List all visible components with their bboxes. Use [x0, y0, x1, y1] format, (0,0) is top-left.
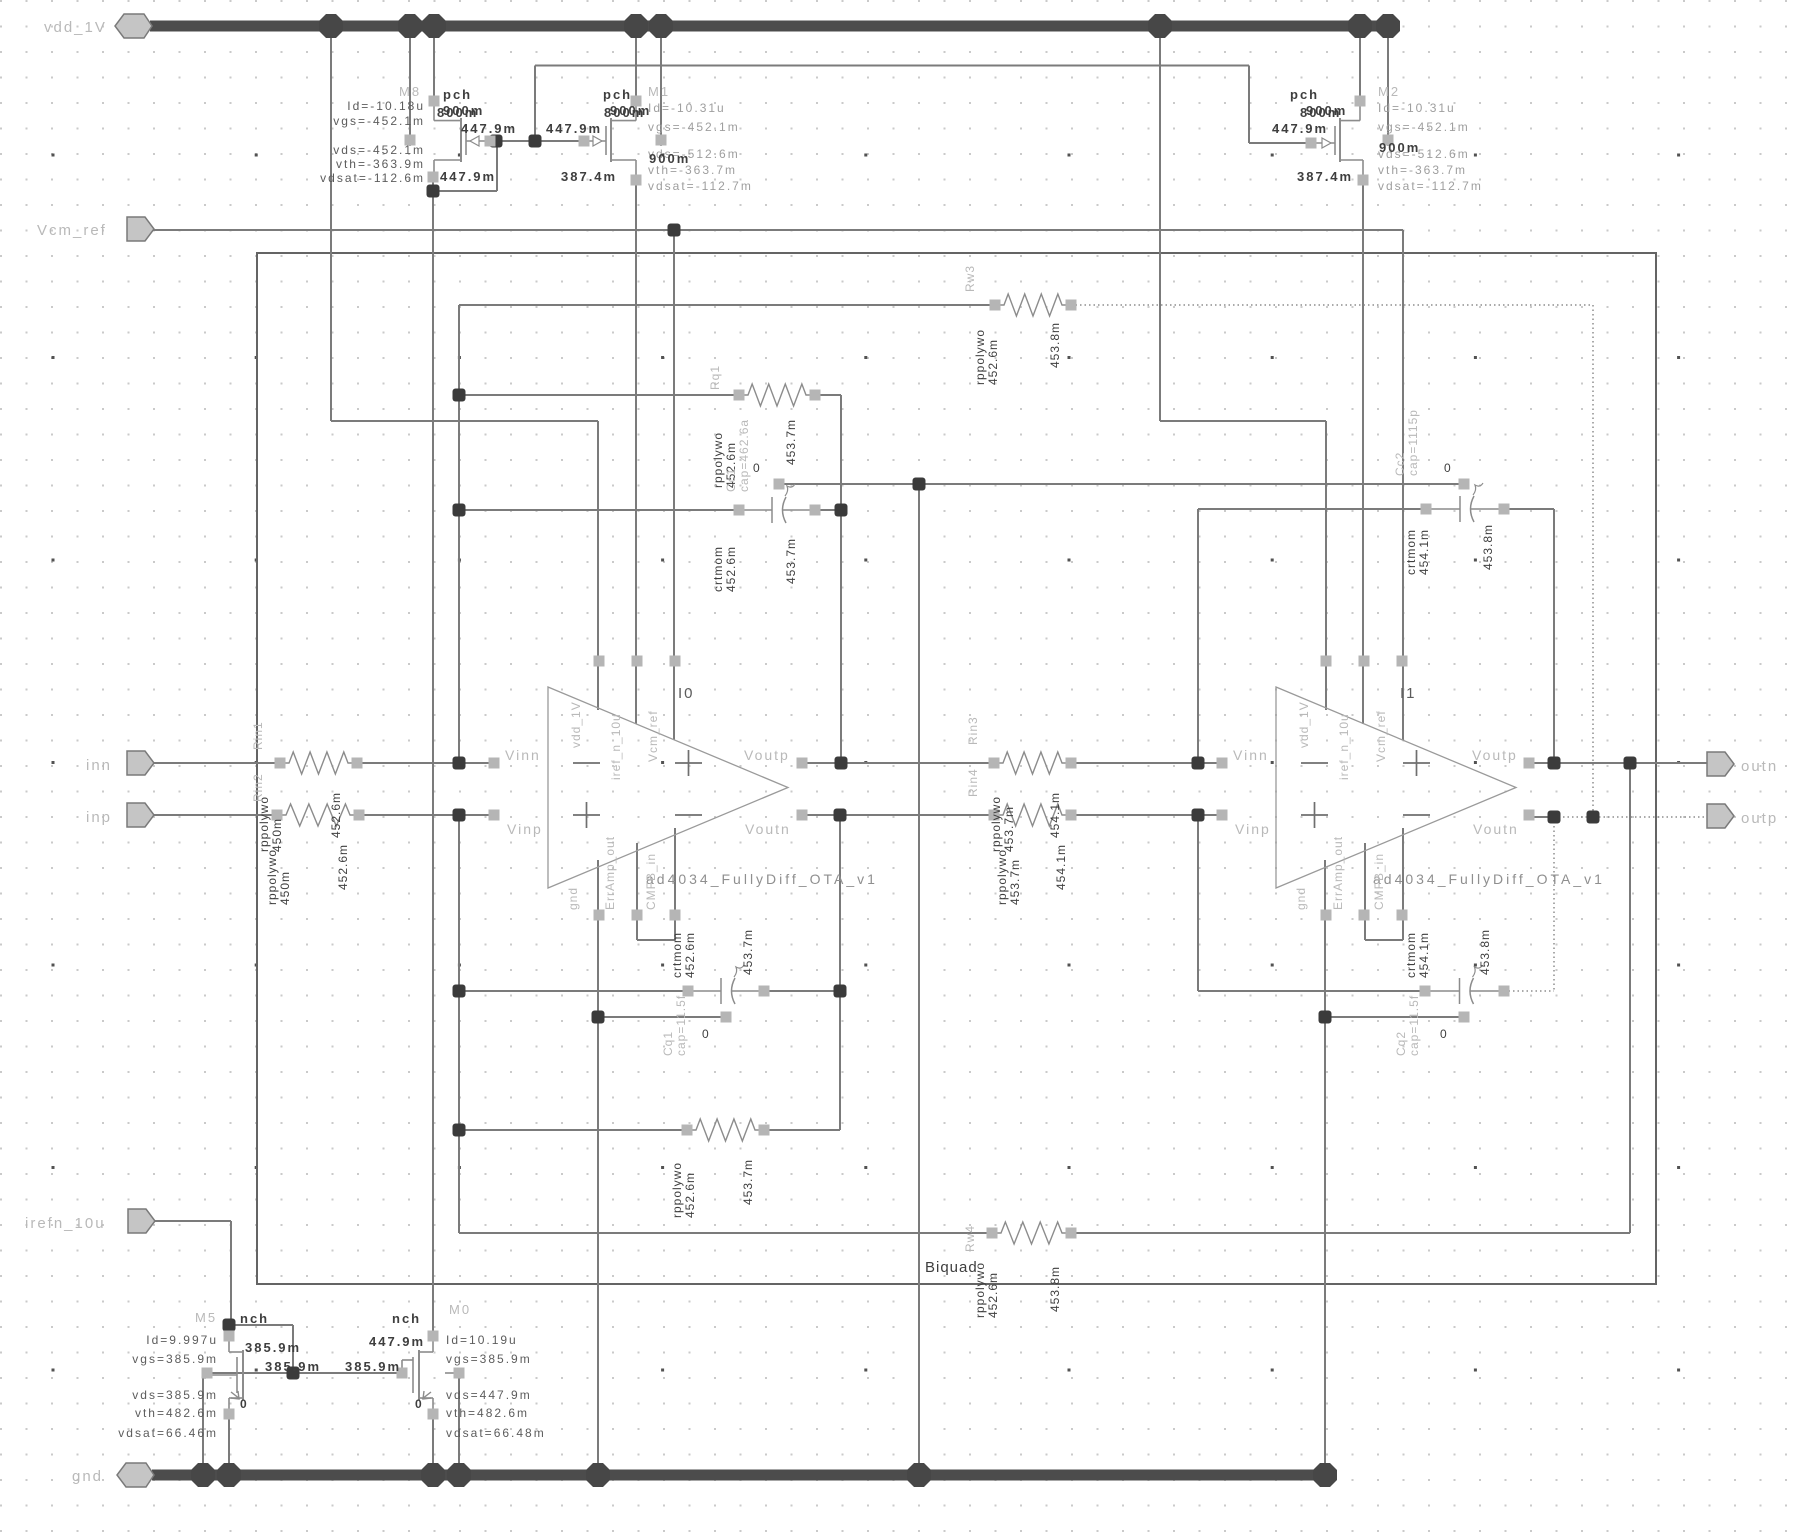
svg-text:450m: 450m — [270, 818, 284, 852]
svg-text:453.8m: 453.8m — [1048, 322, 1062, 368]
svg-text:387.4m: 387.4m — [1297, 169, 1353, 184]
svg-text:vth=-363.9m: vth=-363.9m — [336, 157, 425, 171]
svg-text:rppolywo: rppolywo — [973, 1262, 987, 1318]
wire M2 source to rail — [1359, 31, 1361, 101]
capacitor Cc2 — [1426, 508, 1460, 510]
svg-text:0: 0 — [240, 1397, 249, 1411]
wire M8 drain down to M0 drain — [432, 177, 434, 1336]
transistor M1 pch — [635, 101, 637, 121]
svg-text:crtmom: crtmom — [1404, 529, 1418, 575]
wire inp input — [154, 814, 277, 816]
svg-text:Voutn: Voutn — [745, 821, 791, 837]
wire Cc2 row — [1198, 508, 1426, 510]
svg-text:vdsat=66.48m: vdsat=66.48m — [446, 1426, 546, 1440]
svg-text:450m: 450m — [278, 871, 292, 905]
svg-text:pch: pch — [443, 87, 472, 102]
resistor Rin1 (inn) — [280, 752, 357, 774]
wire Rw4 row — [459, 1232, 992, 1234]
wire Cc2 to Voutp2 — [1553, 509, 1555, 763]
svg-text:0: 0 — [1440, 1027, 1449, 1041]
svg-text:452.6m: 452.6m — [683, 1172, 697, 1218]
transistor M5 nch — [228, 1336, 230, 1352]
svg-text:447.9m: 447.9m — [369, 1334, 425, 1349]
svg-text:ad4034_FullyDiff_OTA_v1: ad4034_FullyDiff_OTA_v1 — [646, 871, 878, 887]
svg-text:nch: nch — [240, 1311, 269, 1326]
resistor Rin4 — [994, 804, 1071, 826]
svg-text:452.6m: 452.6m — [336, 844, 350, 890]
wire M8 bulk to rail — [409, 31, 411, 135]
wire dashed feedback vertical — [1592, 305, 1594, 817]
svg-text:454.1m: 454.1m — [1048, 792, 1062, 838]
svg-text:452.6m: 452.6m — [683, 932, 697, 978]
wire M2 drain to OTA2 iref pin — [1362, 180, 1364, 724]
svg-text:crtmom: crtmom — [711, 546, 725, 592]
svg-text:Rin3: Rin3 — [966, 716, 980, 745]
port irefn_10u — [128, 1209, 155, 1233]
wire OTA1 Voutn to Rin2b — [802, 814, 994, 816]
svg-text:vgs=-452.1m: vgs=-452.1m — [1378, 120, 1470, 134]
svg-text:453.7m: 453.7m — [784, 419, 798, 465]
wire nch gate bus — [207, 1372, 402, 1374]
svg-text:453.7m: 453.7m — [741, 929, 755, 975]
svg-text:ad4034_FullyDiff_OTA_v1: ad4034_FullyDiff_OTA_v1 — [1373, 871, 1605, 887]
wire OTA1 gnd pin to rail — [597, 860, 599, 1470]
svg-text:rppolywo: rppolywo — [257, 796, 271, 852]
op-amp U-I1 ad4034_FullyDiff_OTA_v1 — [1276, 687, 1516, 888]
wire M1 bulk to rail — [660, 31, 662, 135]
wire M0 bulk to rail — [458, 1373, 460, 1470]
transistor M2 pch — [1359, 101, 1361, 121]
svg-text:Id=-10.31u: Id=-10.31u — [1378, 101, 1456, 115]
svg-text:rppolywo: rppolywo — [989, 796, 1003, 852]
wire OTA1 Voutp to Rin2a — [802, 762, 994, 764]
wire Rq1b row — [459, 1129, 687, 1131]
svg-text:vdsat=-112.7m: vdsat=-112.7m — [648, 179, 753, 193]
port Vcm_ref — [127, 217, 154, 241]
svg-text:vdd_1V: vdd_1V — [1297, 701, 1311, 748]
svg-text:CMFB_in: CMFB_in — [644, 853, 658, 910]
capacitor Cq1 — [688, 990, 721, 992]
wire M8 source to rail — [433, 31, 435, 101]
wire Vinp2 to Cq2 — [1197, 815, 1199, 991]
svg-text:Id=9.997u: Id=9.997u — [146, 1333, 218, 1347]
wire irefn input — [154, 1220, 231, 1222]
wire OTA2 gnd pin to rail — [1324, 860, 1326, 1470]
wire M1 drain to OTA1 iref pin — [635, 180, 637, 724]
svg-text:inp: inp — [86, 809, 112, 826]
wire Rw3 feedback row — [459, 304, 995, 306]
wire Cq2 dotted to Voutn2 — [1504, 990, 1554, 992]
svg-text:M5: M5 — [195, 1310, 217, 1325]
svg-text:pch: pch — [603, 87, 632, 102]
svg-text:vgs=-452.1m: vgs=-452.1m — [648, 120, 740, 134]
wire OTA2 Voutp to outn port — [1529, 762, 1707, 764]
svg-text:453.8m: 453.8m — [1481, 524, 1495, 570]
wire Rw3 dashed to right — [1071, 304, 1593, 306]
svg-text:453.7m: 453.7m — [1008, 859, 1022, 905]
port outp — [1707, 804, 1734, 828]
svg-text:vgs=-452.1m: vgs=-452.1m — [333, 114, 425, 128]
svg-text:454.1m: 454.1m — [1054, 844, 1068, 890]
svg-text:453.7m: 453.7m — [1002, 806, 1016, 852]
junction dots on vdd rail — [319, 14, 343, 38]
port gnd — [117, 1463, 154, 1487]
svg-text:vdsat=-112.6m: vdsat=-112.6m — [320, 171, 425, 185]
svg-text:iref_n_10u: iref_n_10u — [1337, 713, 1351, 780]
wire M5 bulk to rail — [202, 1373, 204, 1470]
wire gate bus to M2 — [534, 66, 536, 142]
svg-text:M1: M1 — [648, 84, 670, 99]
svg-text:vth=-363.7m: vth=-363.7m — [1378, 163, 1467, 177]
svg-text:Vcm_ref: Vcm_ref — [1374, 710, 1388, 762]
capacitor Cq2 — [1425, 990, 1460, 992]
svg-text:Id=-10.31u: Id=-10.31u — [648, 101, 726, 115]
svg-text:outp: outp — [1741, 810, 1778, 827]
wire Cq1 bulk — [598, 1016, 726, 1018]
svg-text:I1: I1 — [1400, 685, 1417, 702]
svg-text:452.6m: 452.6m — [986, 1272, 1000, 1318]
svg-text:vdsat=-112.7m: vdsat=-112.7m — [1378, 179, 1483, 193]
wire Vcm branch to OTA1 — [673, 230, 675, 740]
junction dots on gnd rail — [191, 1463, 215, 1487]
svg-text:rppolywo: rppolywo — [265, 849, 279, 905]
svg-text:Id=-10.18u: Id=-10.18u — [347, 99, 425, 113]
svg-text:Rw4: Rw4 — [963, 1225, 977, 1252]
wire M5 source to rail — [228, 1414, 230, 1470]
wire Rq1/Cc1 to Voutp — [840, 395, 842, 763]
svg-text:454.1m: 454.1m — [1417, 932, 1431, 978]
port inn — [127, 751, 154, 775]
wire M5 diode loop — [231, 1324, 293, 1326]
wire vdd rail — [150, 21, 1390, 32]
port inp — [127, 803, 154, 827]
wire Cq1 row — [459, 990, 688, 992]
svg-text:cap=11.5f: cap=11.5f — [674, 995, 688, 1056]
svg-text:447.9m: 447.9m — [546, 121, 602, 136]
svg-text:vds=385.9m: vds=385.9m — [132, 1388, 218, 1402]
svg-text:900m: 900m — [1379, 140, 1420, 155]
wire Cq2 bulk — [1325, 1016, 1464, 1018]
svg-text:cap=462.6a: cap=462.6a — [737, 419, 751, 492]
svg-text:Rin2: Rin2 — [251, 773, 265, 802]
svg-text:Voutn: Voutn — [1473, 821, 1519, 837]
svg-text:900m: 900m — [443, 103, 484, 118]
svg-text:0: 0 — [702, 1027, 711, 1041]
svg-text:cap=11.5f: cap=11.5f — [1407, 995, 1421, 1056]
op-amp U-I0 ad4034_FullyDiff_OTA_v1 — [548, 687, 788, 888]
svg-text:900m: 900m — [649, 151, 690, 166]
svg-text:453.8m: 453.8m — [1048, 1266, 1062, 1312]
svg-text:vdd_1V: vdd_1V — [44, 19, 107, 36]
wire shield bus to gnd — [918, 484, 920, 1470]
svg-text:Rq1: Rq1 — [708, 365, 722, 390]
svg-text:cap=1115p: cap=1115p — [1406, 409, 1420, 476]
svg-text:Voutp: Voutp — [744, 747, 790, 763]
wire cap shield bus — [779, 483, 1464, 485]
svg-text:452.6m: 452.6m — [986, 339, 1000, 385]
wire M0 source to rail — [432, 1414, 434, 1470]
svg-text:gnd: gnd — [72, 1468, 103, 1485]
svg-text:Vinp: Vinp — [1235, 821, 1271, 837]
svg-text:0: 0 — [753, 461, 762, 475]
svg-text:rppolywo: rppolywo — [670, 1162, 684, 1218]
svg-text:crtmom: crtmom — [670, 932, 684, 978]
svg-text:nch: nch — [392, 1311, 421, 1326]
svg-text:irefn_10u: irefn_10u — [25, 1215, 106, 1232]
svg-text:Cq2: Cq2 — [1394, 1031, 1408, 1056]
wire Vcm_ref net — [152, 229, 1403, 231]
svg-text:387.4m: 387.4m — [561, 169, 617, 184]
svg-text:447.9m: 447.9m — [461, 121, 517, 136]
svg-text:Vcm_ref: Vcm_ref — [37, 222, 107, 239]
wire OTA1 ErrAmp-CMFB link — [636, 915, 638, 940]
net junction dots — [668, 224, 681, 237]
svg-text:I0: I0 — [678, 685, 695, 702]
wire Rw4 to Voutp2 — [1629, 763, 1631, 1233]
svg-text:Voutp: Voutp — [1472, 747, 1518, 763]
svg-text:Biquad: Biquad — [925, 1259, 978, 1276]
wire M8 diode loop — [433, 190, 497, 192]
wire OTA2 Voutn to outp port (dashed) — [1529, 816, 1554, 818]
wire vdd branch to OTA1 vdd pin — [330, 31, 332, 421]
wire lower network to Voutn1 — [839, 815, 841, 1130]
svg-text:vth=482.6m: vth=482.6m — [446, 1406, 529, 1420]
svg-text:Rin4: Rin4 — [966, 768, 980, 797]
wire Rin2b to OTA2 Vinp — [1071, 814, 1222, 816]
svg-text:ErrAmp_out: ErrAmp_out — [1331, 836, 1345, 910]
svg-text:rppolywo: rppolywo — [995, 849, 1009, 905]
wire M2 bulk to rail — [1387, 31, 1389, 135]
wire Rq1 row — [459, 394, 739, 396]
svg-text:Vinp: Vinp — [507, 821, 543, 837]
svg-text:Cq1: Cq1 — [661, 1031, 675, 1056]
wire gnd rail — [152, 1470, 1329, 1481]
svg-text:gnd: gnd — [566, 887, 580, 910]
component pin markers — [429, 96, 440, 107]
svg-text:M8: M8 — [399, 84, 421, 99]
svg-text:453.8m: 453.8m — [1478, 929, 1492, 975]
svg-text:M2: M2 — [1378, 84, 1400, 99]
svg-text:vds=-452.1m: vds=-452.1m — [333, 143, 425, 157]
svg-text:Rin1: Rin1 — [251, 721, 265, 750]
port outn — [1707, 752, 1734, 776]
wire gate bus M8-M1 — [490, 140, 584, 142]
svg-text:vgs=385.9m: vgs=385.9m — [132, 1352, 218, 1366]
wire M1 source to rail — [635, 31, 637, 101]
svg-text:iref_n_10u: iref_n_10u — [609, 713, 623, 780]
wire inn input — [154, 762, 280, 764]
svg-text:385.9m: 385.9m — [245, 1340, 301, 1355]
svg-text:447.9m: 447.9m — [440, 169, 496, 184]
capacitor Cc1 — [739, 509, 772, 511]
svg-text:rppolywo: rppolywo — [973, 329, 987, 385]
transistor M0 nch — [432, 1336, 434, 1352]
transistor M8 pch — [433, 101, 435, 121]
svg-text:outn: outn — [1741, 758, 1778, 775]
wire inn to OTA1 Vinn — [357, 762, 494, 764]
wire Vinp1 to lower network — [458, 815, 460, 1233]
svg-text:453.7m: 453.7m — [741, 1159, 755, 1205]
svg-text:385.9m: 385.9m — [345, 1359, 401, 1374]
svg-text:pch: pch — [1290, 87, 1319, 102]
svg-text:vgs=385.9m: vgs=385.9m — [446, 1352, 532, 1366]
Biquad boundary box — [257, 253, 1656, 1284]
port vdd_1V — [115, 14, 152, 38]
svg-text:452.6m: 452.6m — [724, 546, 738, 592]
svg-text:385.9m: 385.9m — [265, 1359, 321, 1374]
svg-text:900m: 900m — [1306, 103, 1347, 118]
wire Cc1 row — [459, 509, 739, 511]
wire OTA2 ErrAmp-CMFB link — [1364, 915, 1366, 940]
svg-text:M0: M0 — [449, 1302, 471, 1317]
svg-text:crtmom: crtmom — [1404, 932, 1418, 978]
svg-text:gnd: gnd — [1294, 887, 1308, 910]
resistor Rin2 (inp) — [277, 804, 359, 826]
svg-text:447.9m: 447.9m — [1272, 121, 1328, 136]
resistor Rw3 — [995, 294, 1071, 316]
svg-text:Cc1: Cc1 — [724, 468, 738, 492]
svg-text:Vcm_ref: Vcm_ref — [646, 710, 660, 762]
svg-text:vds=447.9m: vds=447.9m — [446, 1388, 532, 1402]
svg-text:Vinn: Vinn — [1233, 747, 1269, 763]
resistor Rq1 — [739, 384, 815, 406]
svg-text:ErrAmp_out: ErrAmp_out — [603, 836, 617, 910]
svg-text:CMFB_in: CMFB_in — [1372, 853, 1386, 910]
wire Rin2a to OTA2 Vinn — [1071, 762, 1222, 764]
svg-text:453.7m: 453.7m — [784, 538, 798, 584]
svg-text:454.1m: 454.1m — [1417, 529, 1431, 575]
wire OTA2 Vcm stub — [1402, 655, 1404, 740]
resistor Rw4 — [992, 1222, 1071, 1244]
svg-text:vdsat=66.46m: vdsat=66.46m — [118, 1426, 218, 1440]
svg-text:inn: inn — [86, 757, 112, 774]
svg-text:Vinn: Vinn — [505, 747, 541, 763]
wire vdd branch to OTA2 vdd pin — [1159, 31, 1161, 421]
svg-text:Id=10.19u: Id=10.19u — [446, 1333, 518, 1347]
wire inp to OTA1 Vinp — [359, 814, 494, 816]
svg-text:0: 0 — [415, 1397, 424, 1411]
resistor Rq2 — [687, 1119, 764, 1141]
svg-text:0: 0 — [1444, 461, 1453, 475]
svg-text:vth=482.6m: vth=482.6m — [135, 1406, 218, 1420]
svg-text:vdd_1V: vdd_1V — [569, 701, 583, 748]
svg-text:900m: 900m — [610, 103, 651, 118]
svg-text:Cc2: Cc2 — [1393, 452, 1407, 476]
svg-text:452.6m: 452.6m — [329, 792, 343, 838]
svg-text:Rw3: Rw3 — [963, 265, 977, 292]
resistor Rin3 — [994, 752, 1071, 774]
svg-text:rppolywo: rppolywo — [711, 432, 725, 488]
